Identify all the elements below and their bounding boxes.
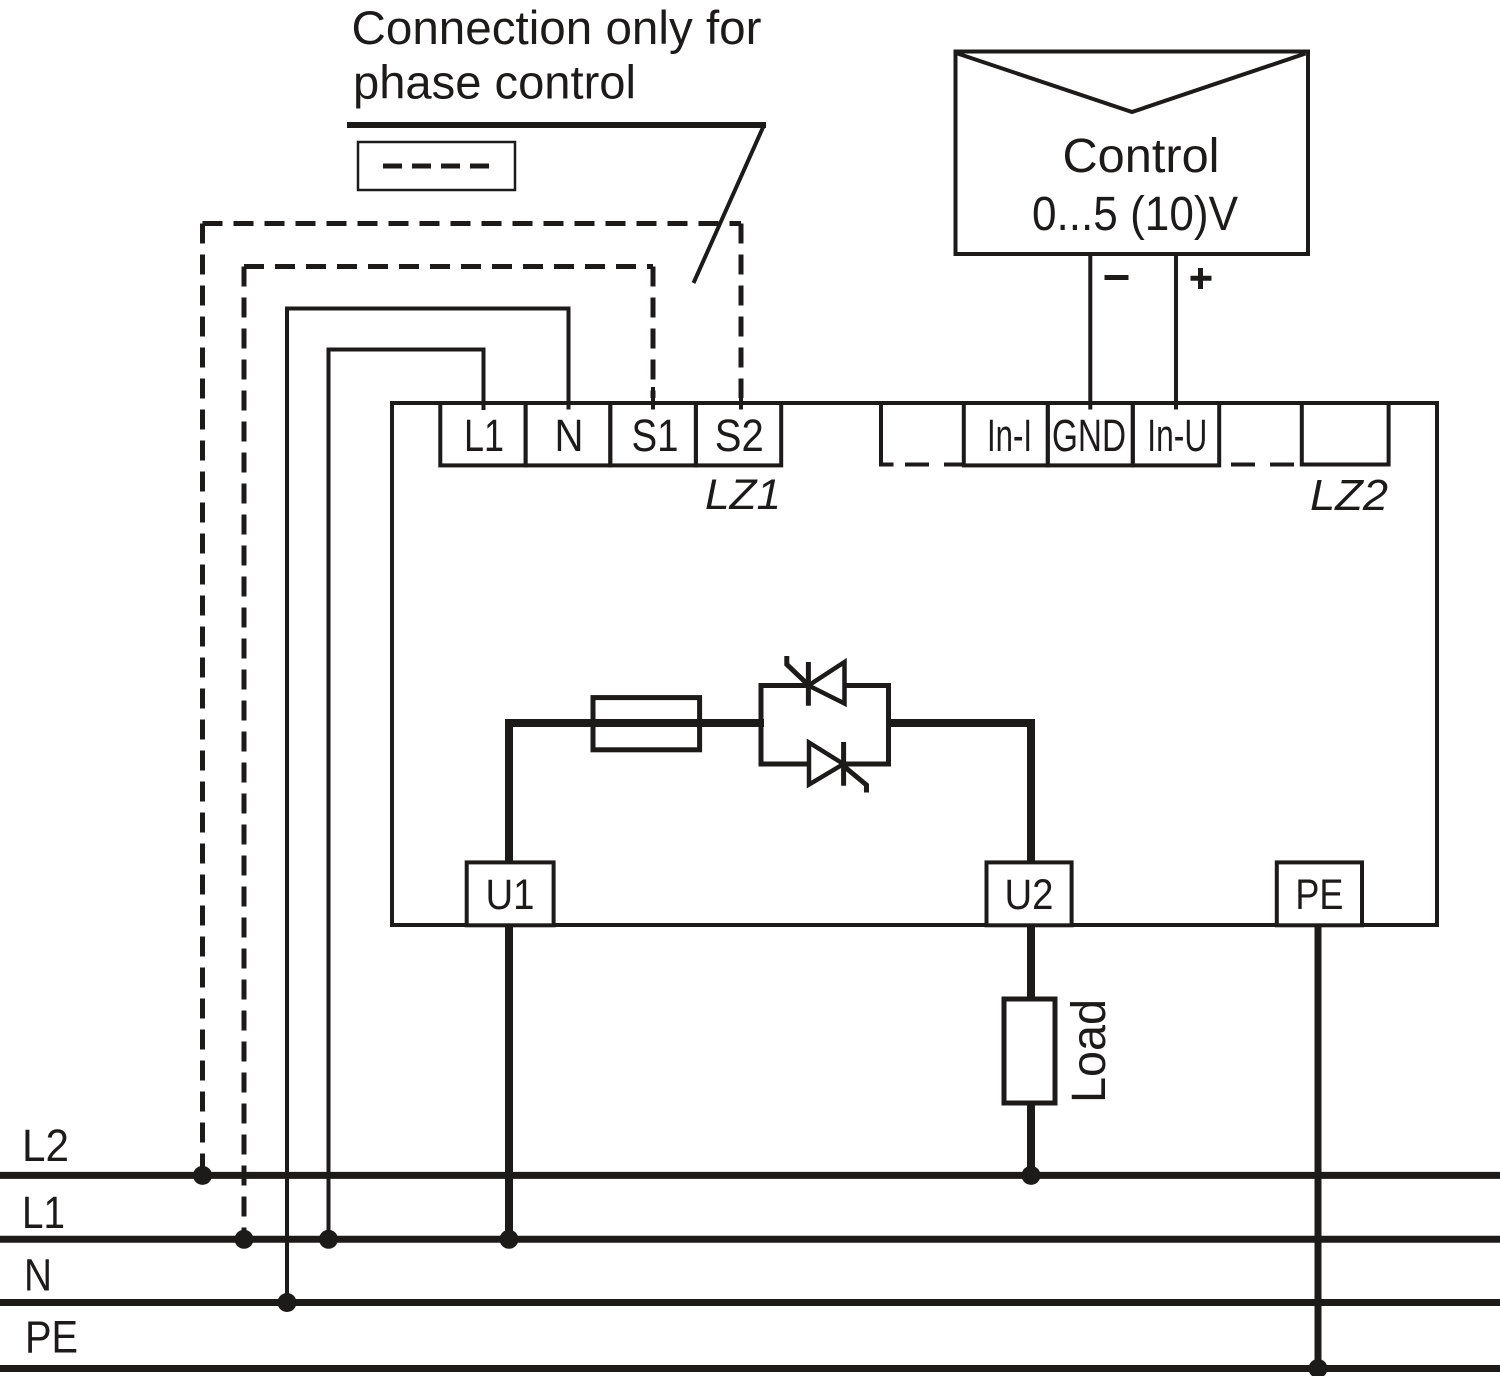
svg-text:U2: U2 <box>1005 871 1054 919</box>
svg-text:L1: L1 <box>22 1187 65 1238</box>
svg-text:0...5 (10)V: 0...5 (10)V <box>1032 187 1239 241</box>
svg-text:LZ2: LZ2 <box>1310 471 1388 520</box>
svg-text:phase control: phase control <box>353 56 636 109</box>
svg-text:N: N <box>24 1250 52 1301</box>
svg-text:LZ1: LZ1 <box>705 471 781 519</box>
svg-text:Control: Control <box>1063 129 1220 183</box>
svg-text:U1: U1 <box>486 871 535 919</box>
svg-text:L2: L2 <box>22 1120 69 1171</box>
svg-text:GND: GND <box>1052 410 1126 461</box>
svg-text:N: N <box>555 410 584 461</box>
svg-text:PE: PE <box>25 1312 78 1363</box>
svg-text:In-U: In-U <box>1147 410 1207 461</box>
svg-text:Load: Load <box>1063 999 1116 1103</box>
svg-text:PE: PE <box>1295 871 1343 919</box>
svg-text:In-I: In-I <box>987 410 1032 461</box>
svg-text:S1: S1 <box>632 410 679 461</box>
svg-text:S2: S2 <box>715 410 764 461</box>
svg-text:L1: L1 <box>464 410 504 461</box>
svg-text:Connection only for: Connection only for <box>352 1 762 54</box>
